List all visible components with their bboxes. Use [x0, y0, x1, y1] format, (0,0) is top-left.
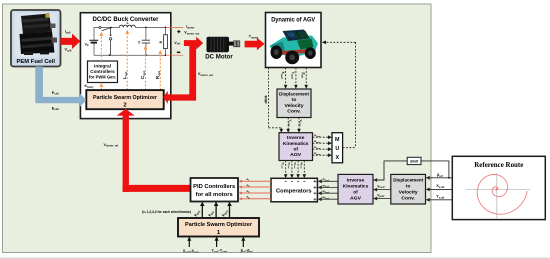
red output lines of buck [166, 26, 183, 28]
PEM fuel cell block [11, 10, 61, 67]
DC motor icon [207, 37, 240, 53]
svg-text:w4,act: w4,act [299, 163, 302, 169]
displacement to velocity conv 2 box [391, 174, 426, 204]
dashed feedback arrow into dynamics right side [325, 41, 355, 43]
svg-text:Integral: Integral [94, 63, 111, 68]
svg-text:Controllers: Controllers [90, 69, 115, 74]
comparators box [271, 178, 317, 202]
orange dashed arrow R_opt [159, 54, 161, 91]
svg-text:L: L [127, 21, 129, 25]
wire capacitor branch [145, 27, 147, 40]
dashed wire MUX up to dynamics [355, 42, 357, 147]
orange dashed arrow C_opt [145, 49, 147, 90]
red feedback elbow V_motor_act to PSO2 [163, 45, 196, 104]
arrows PSO1 to PID gains [202, 205, 229, 218]
svg-text:Conv.: Conv. [287, 108, 301, 114]
wire resistor branch [165, 27, 167, 34]
svg-text:Dynamic of AGV: Dynamic of AGV [271, 18, 315, 24]
PID controllers box [191, 178, 239, 202]
dashed outputs IK1 bottom to comparators [286, 161, 305, 175]
svg-text:Inverse: Inverse [347, 177, 365, 182]
route axes [466, 173, 531, 218]
svg-text:U: U [335, 146, 339, 152]
svg-text:w2,act: w2,act [287, 163, 290, 169]
red thick arrow buck to DC motor [184, 37, 203, 50]
svg-text:to: to [406, 184, 411, 190]
labels w_i,ref [322, 177, 330, 200]
labels w_act for MUX inputs [314, 134, 321, 156]
resistor R [164, 35, 168, 49]
svg-text:to: to [292, 97, 297, 103]
svg-text:Displacement: Displacement [393, 177, 423, 183]
svg-text:PEM Fuel Cell: PEM Fuel Cell [17, 59, 56, 65]
wire top after switch [101, 26, 119, 28]
green system panel [3, 4, 432, 253]
red arrow fuel cell to buck converter [61, 34, 81, 49]
arrows disp2 to IK2 [376, 190, 391, 199]
blue arrow P_cell E_cell to PSO2 [35, 67, 86, 107]
particle swarm optimizer 1 box [178, 218, 259, 237]
orange dashed arrow L_opt [126, 34, 128, 91]
svg-text:w1,act: w1,act [281, 163, 284, 169]
svg-text:Velocity: Velocity [285, 103, 304, 109]
svg-text:M: M [335, 137, 340, 143]
svg-text:for all motors: for all motors [196, 192, 233, 198]
wires reference route to disp2 [429, 178, 453, 200]
rotated labels w_i,act above comparators [281, 163, 303, 169]
dashed wire d-theta/dt to inverse kinematics 1 [269, 68, 282, 130]
svg-text:Velocity: Velocity [399, 190, 418, 196]
svg-text:DC Motor: DC Motor [205, 53, 233, 60]
dashed outputs IK1 right to MUX [313, 137, 330, 155]
wire left vertical [93, 27, 95, 40]
inverse kinematics of AGV 2 box [338, 174, 373, 204]
switch S [99, 26, 112, 55]
svg-text:dθ/dt: dθ/dt [410, 160, 419, 164]
svg-text:Particle Swarm Optimizer: Particle Swarm Optimizer [93, 95, 158, 101]
inductor L [119, 25, 135, 27]
fuel cell photo [14, 13, 58, 58]
orange dashed arrow PSO2 to integral controllers [100, 87, 102, 91]
plus signs inside right edge [313, 180, 316, 201]
particle swarm optimizer 2 box [86, 90, 163, 109]
svg-text:Displacement: Displacement [279, 92, 309, 98]
svg-text:Kinematics: Kinematics [283, 141, 309, 146]
battery Vin [89, 40, 98, 42]
lines IK2 to comparators w_ref [321, 181, 338, 199]
junction dots [109, 27, 167, 57]
red arrow T_motor motor to dynamics [245, 38, 265, 50]
svg-text:of: of [293, 146, 298, 151]
route spiral [477, 175, 527, 215]
minus signs inside top edge [285, 180, 306, 182]
reference route box [452, 156, 545, 219]
wire top left segment [94, 26, 99, 28]
displacement to velocity conv 1 box [277, 89, 311, 118]
minus polarity [177, 51, 180, 53]
MUX box [332, 133, 343, 163]
labels e1-e4 [247, 177, 251, 199]
dynamic of AGV box [266, 13, 322, 68]
svg-text:Reference Route: Reference Route [474, 160, 524, 169]
svg-text:of: of [353, 190, 358, 195]
inverse kinematics of AGV 1 box [279, 133, 313, 161]
orange dashed arrow to switch [100, 36, 102, 62]
svg-text:Inverse: Inverse [287, 135, 305, 140]
svg-text:Kinematics: Kinematics [343, 184, 369, 189]
arrows into PSO1 bottom [189, 240, 243, 247]
capacitor C [142, 40, 150, 43]
svg-text:Comperators: Comperators [276, 188, 312, 194]
wire bottom [94, 54, 166, 56]
svg-text:for PWM Gen.: for PWM Gen. [89, 74, 116, 79]
dashed arrows disp1 to IK1 [288, 118, 299, 131]
plus polarity [177, 30, 180, 33]
bottom input labels [183, 249, 253, 254]
svg-text:(i= 1,2,3,4 for each wheel/mot: (i= 1,2,3,4 for each wheel/motor) [142, 210, 191, 214]
svg-text:w3,act: w3,act [293, 163, 296, 169]
AGV vehicle picture [270, 30, 319, 65]
svg-text:Particle Swarm Optimizer: Particle Swarm Optimizer [185, 222, 253, 228]
red thick elbow PID output to PSO2 (V_motor_ref) [123, 185, 191, 192]
svg-text:X: X [335, 155, 339, 161]
svg-text:AGV: AGV [350, 196, 362, 201]
d-theta/dt wire from beta_ref [376, 161, 449, 180]
svg-text:AGV: AGV [290, 152, 302, 157]
dashed outputs of dynamics: X Y theta [286, 68, 307, 86]
d-theta/dt box [407, 157, 421, 164]
DC/DC buck converter outer box [80, 13, 170, 119]
integral controllers box [88, 61, 118, 83]
svg-text:dθ/dt: dθ/dt [264, 95, 268, 104]
rotated labels K_p,i K_I,i K_D,i [193, 209, 229, 218]
svg-text:PID Controllers: PID Controllers [193, 184, 235, 190]
svg-text:Conv.: Conv. [401, 196, 415, 202]
buck circuit wires [94, 27, 166, 55]
error lines e1-e4 comparators to PID [242, 181, 272, 198]
wire top right of inductor [135, 26, 165, 28]
